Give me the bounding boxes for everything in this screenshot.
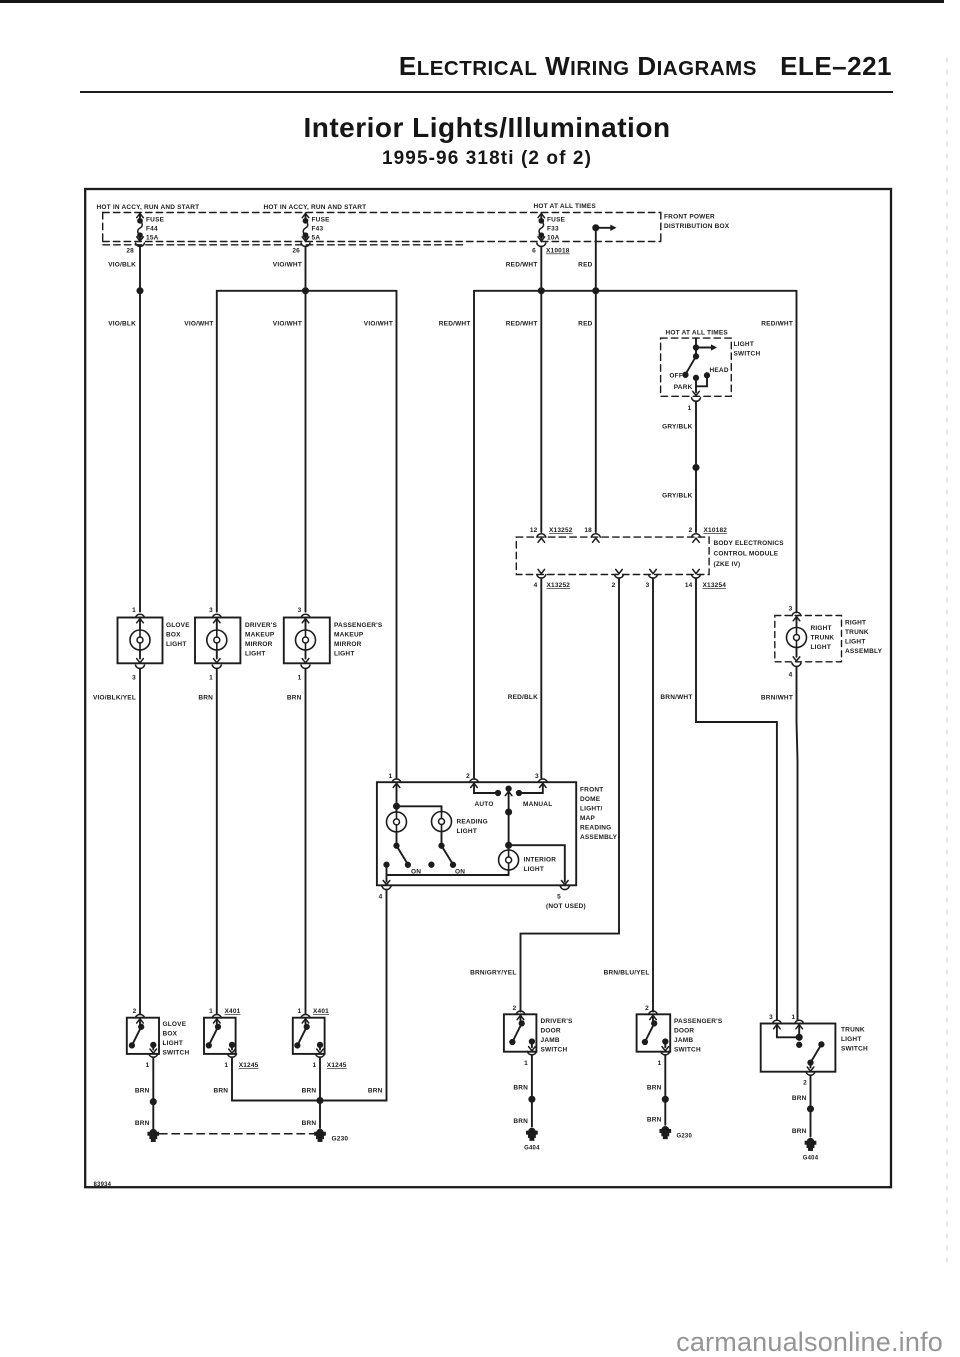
svg-text:JAMB: JAMB	[541, 1037, 560, 1044]
svg-text:BRN: BRN	[513, 1085, 528, 1092]
svg-text:LIGHT: LIGHT	[457, 828, 478, 835]
svg-text:5A: 5A	[312, 235, 321, 242]
svg-text:GLOVE: GLOVE	[166, 622, 190, 629]
svg-text:2: 2	[466, 773, 470, 780]
label: RIGHT TRUNK LIGHT (inside)	[811, 625, 835, 651]
bulb: interior light	[508, 845, 510, 850]
svg-text:LIGHT: LIGHT	[841, 1036, 862, 1043]
svg-text:BRN: BRN	[792, 1128, 807, 1135]
svg-text:(NOT USED): (NOT USED)	[546, 903, 586, 910]
wire W7: RED from distribution box tap down to ZKE pin 18	[595, 228, 597, 532]
svg-text:10A: 10A	[547, 235, 560, 242]
svg-text:HOT AT ALL TIMES: HOT AT ALL TIMES	[534, 203, 597, 210]
driver's makeup mirror switch (box)	[204, 1018, 236, 1054]
label: FRONT DOME LIGHT/ MAP READING ASSEMBLY	[580, 787, 618, 842]
svg-text:HOT IN ACCY, RUN AND START: HOT IN ACCY, RUN AND START	[97, 204, 200, 211]
label BRN/WHT (W10b)	[660, 694, 692, 701]
svg-text:28: 28	[126, 248, 134, 255]
svg-text:LIGHT: LIGHT	[845, 639, 866, 646]
svg-text:1: 1	[298, 1008, 302, 1015]
svg-text:G230: G230	[677, 1134, 693, 1140]
svg-text:RED/WHT: RED/WHT	[506, 262, 538, 269]
wire: BRN passenger jamb switch to ground G230	[664, 1055, 666, 1125]
ZKE pin 14 X13254 (bottom)	[693, 569, 700, 573]
svg-text:2: 2	[612, 582, 616, 589]
wire: BRN passenger mirror switch to ground G230	[319, 1057, 321, 1128]
svg-text:1: 1	[224, 1062, 228, 1069]
svg-text:2: 2	[513, 1005, 517, 1012]
svg-text:AUTO: AUTO	[475, 801, 494, 808]
svg-text:FRONT POWER: FRONT POWER	[664, 214, 715, 221]
svg-text:GRY/BLK: GRY/BLK	[662, 424, 693, 431]
top scan bar	[0, 0, 944, 3]
fuse F43 5A	[302, 214, 330, 242]
passenger's makeup mirror light (box)	[284, 618, 330, 664]
svg-text:BRN: BRN	[135, 1088, 150, 1095]
svg-text:X401: X401	[313, 1008, 329, 1015]
svg-text:SWITCH: SWITCH	[541, 1047, 568, 1054]
label VIO/WHT (lower, W3)	[273, 321, 302, 328]
passenger mirror switch pin 1 X401 (top)	[301, 1014, 310, 1017]
page header: ELECTRICAL WIRING DIAGRAMS ELE-221	[0, 51, 892, 82]
svg-text:(ZKE IV): (ZKE IV)	[714, 561, 741, 568]
passenger mirror switch internals	[305, 1018, 307, 1027]
wire: BRN glove switch to ground	[152, 1057, 154, 1128]
trunk switch internals	[777, 1024, 799, 1037]
svg-text:LIGHT/: LIGHT/	[580, 806, 603, 813]
svg-text:1: 1	[688, 405, 692, 412]
svg-text:RED: RED	[578, 262, 592, 269]
svg-text:15A: 15A	[146, 235, 159, 242]
label: GLOVE BOX LIGHT SWITCH	[163, 1021, 190, 1057]
passenger mirror light pin 1 (bottom)	[301, 665, 310, 668]
label: PASSENGER'S MAKEUP MIRROR LIGHT	[334, 622, 383, 658]
svg-text:VIO/BLK: VIO/BLK	[108, 262, 136, 269]
passenger's door jamb switch (box)	[637, 1014, 671, 1051]
wire W6b: RED/BLK ZKE pin 4 down to dome assembly pin 3	[540, 578, 542, 777]
junction dot on W1	[137, 288, 142, 293]
driver mirror light pin 1 (bottom)	[212, 665, 221, 668]
svg-text:VIO/WHT: VIO/WHT	[184, 321, 213, 328]
svg-text:RED/BLK: RED/BLK	[508, 694, 538, 701]
svg-text:F33: F33	[547, 226, 559, 233]
svg-text:F43: F43	[312, 226, 324, 233]
svg-text:3: 3	[535, 773, 539, 780]
svg-text:GLOVE: GLOVE	[163, 1021, 187, 1028]
diagram number 83934	[94, 1182, 112, 1188]
driver jamb switch pin 1 (bottom)	[527, 1052, 536, 1055]
svg-text:1: 1	[209, 675, 213, 682]
svg-text:BRN: BRN	[302, 1120, 317, 1127]
svg-text:BRN: BRN	[513, 1118, 528, 1125]
wire W10b: BRN/WHT ZKE pin 14 down, jog right, to trunk light switch pin 3	[696, 578, 777, 1020]
label: DRIVER'S MAKEUP MIRROR LIGHT	[245, 622, 278, 658]
svg-text:MAKEUP: MAKEUP	[334, 632, 364, 639]
svg-text:4: 4	[379, 894, 383, 901]
svg-text:X401: X401	[225, 1008, 241, 1015]
connector pin 1 below light switch	[692, 398, 701, 401]
wire W2: VIO/WHT branch down to driver makeup mirror light	[216, 291, 218, 612]
svg-text:RED: RED	[578, 321, 592, 328]
svg-text:X10182: X10182	[704, 527, 728, 534]
passenger mirror switch pin 1 X1245 (bottom)	[316, 1054, 325, 1057]
svg-text:BODY ELECTRONICS: BODY ELECTRONICS	[714, 540, 785, 547]
svg-text:BRN/GRY/YEL: BRN/GRY/YEL	[470, 970, 516, 977]
wire: BRN driver mirror switch to ground junction	[232, 1057, 320, 1100]
glove box light pin 1 (top)	[136, 614, 145, 617]
svg-text:DOOR: DOOR	[674, 1028, 694, 1035]
dome internals: pin1 feed to reading light bulbs	[396, 783, 398, 812]
driver mirror light pin 3 (top)	[212, 614, 221, 617]
junction dot on W6 at bus	[539, 288, 544, 293]
svg-text:BOX: BOX	[166, 632, 181, 639]
label: INTERIOR LIGHT	[524, 857, 557, 874]
svg-text:VIO/BLK: VIO/BLK	[108, 321, 136, 328]
svg-text:PASSENGER'S: PASSENGER'S	[334, 622, 383, 629]
svg-text:READING: READING	[580, 825, 611, 832]
svg-text:VIO/BLK/YEL: VIO/BLK/YEL	[93, 695, 136, 702]
light switch (dashed box)	[661, 338, 732, 396]
passenger jamb switch pin 1 (bottom)	[661, 1052, 670, 1055]
wire: VIO/WHT bus	[217, 290, 397, 292]
svg-text:MAP: MAP	[580, 815, 596, 822]
ZKE pin 3 (bottom)	[650, 569, 657, 573]
glove switch pin 2 (top)	[136, 1014, 145, 1017]
svg-text:RIGHT: RIGHT	[845, 620, 866, 627]
svg-text:1: 1	[209, 1008, 213, 1015]
dome internals: selector wire to interior light	[506, 786, 510, 790]
label VIO/WHT (W2)	[184, 321, 213, 328]
ZKE pin 18 (top)	[591, 534, 600, 537]
wire: BRN driver jamb switch to ground G404	[531, 1055, 533, 1126]
svg-text:2: 2	[133, 1008, 137, 1015]
connector pin 28 below fuse F44	[136, 243, 145, 246]
svg-text:DRIVER'S: DRIVER'S	[245, 622, 278, 629]
svg-text:RIGHT: RIGHT	[811, 625, 832, 632]
svg-text:BRN: BRN	[302, 1088, 317, 1095]
svg-text:RED/WHT: RED/WHT	[761, 321, 793, 328]
label BRN (driver mirror)	[198, 695, 213, 702]
label GRY/BLK (lower)	[662, 493, 693, 500]
label RED (upper)	[578, 262, 592, 269]
svg-text:BRN: BRN	[368, 1088, 383, 1095]
driver's makeup mirror light (box)	[195, 618, 240, 664]
svg-text:BRN: BRN	[287, 695, 302, 702]
svg-text:BRN: BRN	[135, 1120, 150, 1127]
dome internals: branch to pin 5	[509, 845, 565, 882]
svg-text:FUSE: FUSE	[146, 217, 165, 224]
svg-text:1: 1	[132, 607, 136, 614]
label: DRIVER'S DOOR JAMB SWITCH	[541, 1018, 574, 1054]
junction dot on W10	[693, 465, 698, 470]
svg-text:HEAD: HEAD	[710, 367, 729, 374]
label BRN/GRY/YEL	[470, 970, 516, 977]
svg-text:3: 3	[646, 582, 650, 589]
svg-text:HOT IN ACCY, RUN AND START: HOT IN ACCY, RUN AND START	[264, 204, 367, 211]
svg-text:G404: G404	[524, 1146, 540, 1152]
bulb: reading light 1	[387, 812, 407, 832]
wire: BRN trunk switch to ground G404	[810, 1075, 812, 1136]
svg-text:G230: G230	[332, 1136, 349, 1143]
label RED (lower)	[578, 321, 592, 328]
svg-text:ASSEMBLY: ASSEMBLY	[845, 648, 883, 655]
svg-text:VIO/WHT: VIO/WHT	[273, 262, 302, 269]
bulb: reading light 2	[432, 812, 452, 832]
svg-text:SWITCH: SWITCH	[841, 1046, 868, 1053]
label: TRUNK LIGHT SWITCH	[841, 1027, 868, 1053]
dome assembly pin 3 (top)	[538, 779, 547, 782]
ZKE pin 4 X13252 (bottom)	[538, 569, 545, 573]
front dome light / map reading assembly (box)	[377, 782, 576, 885]
svg-text:CONTROL MODULE: CONTROL MODULE	[714, 551, 779, 558]
label RED/WHT (W11)	[761, 321, 793, 328]
wire W3b: BRN passenger mirror light to passenger mirror switch	[305, 669, 307, 1014]
driver jamb switch internals	[520, 1015, 522, 1024]
wire W5: RED/WHT branch down to dome assembly pin 2	[473, 291, 475, 778]
driver mirror switch pin 1 X401 (top)	[212, 1014, 221, 1017]
svg-text:PASSENGER'S: PASSENGER'S	[674, 1018, 723, 1025]
svg-text:83934: 83934	[94, 1182, 112, 1188]
svg-text:3: 3	[209, 607, 213, 614]
net label: HOT IN ACCY, RUN AND START (middle)	[264, 204, 367, 211]
dome internals: MANUAL contact from pin 3	[522, 783, 543, 793]
dome internals: ground rail to pin 4	[387, 865, 509, 875]
bulb: passenger's makeup mirror light	[305, 618, 307, 630]
svg-text:14: 14	[685, 582, 693, 589]
svg-text:F44: F44	[146, 226, 158, 233]
svg-text:SWITCH: SWITCH	[674, 1047, 701, 1054]
svg-text:BRN: BRN	[647, 1117, 662, 1124]
node: RED feed tap with arrow inside distribution box	[593, 225, 616, 231]
bulb: glove box light	[139, 618, 141, 630]
svg-text:INTERIOR: INTERIOR	[524, 857, 557, 864]
wire: BRN dome assembly pin 4 to ground junction	[320, 890, 387, 1101]
label: LIGHT SWITCH	[734, 341, 761, 358]
label: READING LIGHT	[457, 819, 488, 836]
svg-text:LIGHT: LIGHT	[734, 341, 755, 348]
passenger's makeup mirror switch (box)	[293, 1018, 325, 1054]
junction dot on W3 at bus	[303, 288, 308, 293]
net label: HOT AT ALL TIMES	[534, 203, 597, 210]
svg-text:MIRROR: MIRROR	[334, 641, 362, 648]
svg-text:SWITCH: SWITCH	[163, 1050, 190, 1057]
svg-text:LIGHT: LIGHT	[811, 644, 832, 651]
wire W11: RED/WHT branch down to right trunk light assembly	[796, 291, 798, 613]
glove switch internals	[139, 1018, 141, 1027]
svg-text:FUSE: FUSE	[547, 217, 566, 224]
driver jamb switch pin 2 (top)	[516, 1011, 525, 1014]
svg-text:MAKEUP: MAKEUP	[245, 632, 275, 639]
svg-text:PARK: PARK	[674, 384, 693, 391]
light switch internals	[669, 338, 728, 395]
dome assembly pin 4 (bottom)	[382, 886, 391, 889]
svg-text:MIRROR: MIRROR	[245, 641, 273, 648]
dome assembly pin 5 (bottom, not used)	[560, 886, 569, 889]
svg-text:BRN/WHT: BRN/WHT	[660, 694, 692, 701]
svg-text:RED/WHT: RED/WHT	[439, 321, 471, 328]
wire W11b: BRN/WHT trunk assembly pin 4 to trunk light switch pin 1	[797, 667, 798, 1020]
ground G404 (trunk switch)	[806, 1139, 816, 1150]
subtitle	[14, 148, 960, 170]
label VIO/BLK (lower)	[108, 321, 136, 328]
ZKE pin 2 (bottom)	[616, 569, 623, 573]
connector 6 X10018 below fuse F33	[537, 243, 546, 246]
svg-text:HOT AT ALL TIMES: HOT AT ALL TIMES	[666, 330, 729, 337]
driver mirror switch pin 1 X1245 (bottom)	[228, 1054, 237, 1057]
passenger jamb switch internals	[652, 1015, 654, 1024]
dome internals: reading light switch 1 (ON)	[396, 832, 398, 846]
svg-text:X13252: X13252	[547, 582, 571, 589]
svg-text:12: 12	[530, 527, 538, 534]
trunk assembly pin 4 (bottom)	[792, 663, 801, 666]
net label: HOT AT ALL TIMES (light switch)	[666, 330, 729, 337]
svg-text:1: 1	[146, 1062, 150, 1069]
label BRN/BLU/YEL	[604, 970, 650, 977]
fuse F33 10A	[538, 214, 566, 242]
svg-text:TRUNK: TRUNK	[845, 629, 869, 636]
svg-text:DOME: DOME	[580, 796, 601, 803]
watermark	[676, 1327, 943, 1357]
svg-text:GRY/BLK: GRY/BLK	[662, 493, 693, 500]
dome assembly pin 1 (top)	[392, 779, 401, 782]
ground G404 (driver jamb)	[527, 1129, 537, 1140]
glove switch pin 1 (bottom)	[149, 1054, 158, 1057]
dashed ground link to G230	[160, 1133, 315, 1135]
svg-text:3: 3	[769, 1014, 773, 1021]
wire W1: VIO/BLK from fuse F44 down to glove box light	[139, 247, 141, 612]
svg-text:2: 2	[645, 1005, 649, 1012]
net label: HOT IN ACCY, RUN AND START (left)	[97, 204, 200, 211]
label BRN/WHT (W11b)	[761, 695, 793, 702]
trunk switch pin 2 (bottom)	[806, 1072, 815, 1075]
label: BODY ELECTRONICS CONTROL MODULE (ZKE IV)	[714, 540, 785, 568]
svg-text:DRIVER'S: DRIVER'S	[541, 1018, 574, 1025]
svg-text:X10018: X10018	[546, 248, 570, 255]
svg-text:BOX: BOX	[163, 1031, 178, 1038]
driver's door jamb switch (box)	[504, 1014, 537, 1051]
svg-text:18: 18	[584, 527, 592, 534]
wire W2b: BRN driver mirror light to driver mirror switch	[216, 669, 218, 1014]
wire W4: VIO/WHT branch down to dome assembly pin 1	[396, 291, 398, 778]
svg-text:2: 2	[689, 527, 693, 534]
junction dot on W7 at bus	[593, 288, 598, 293]
trunk light switch (box)	[761, 1024, 836, 1072]
svg-text:3: 3	[298, 607, 302, 614]
ZKE pin 2 X10182 (top)	[692, 534, 701, 537]
svg-text:5: 5	[557, 894, 561, 901]
svg-text:X1245: X1245	[327, 1062, 347, 1069]
dome internals: reading light switch 2 (ON)	[441, 832, 443, 846]
svg-text:BRN/BLU/YEL: BRN/BLU/YEL	[604, 970, 650, 977]
svg-text:VIO/WHT: VIO/WHT	[273, 321, 302, 328]
body electronics control module ZKE IV (dashed box)	[516, 537, 709, 574]
svg-text:1: 1	[389, 773, 393, 780]
connector pin 26 below fuse F43	[301, 243, 310, 246]
label RED/WHT (W6 lower)	[506, 321, 538, 328]
svg-text:3: 3	[132, 675, 136, 682]
svg-text:X13254: X13254	[703, 582, 727, 589]
header rule	[80, 91, 893, 93]
ground G230 (passenger jamb)	[660, 1127, 670, 1138]
label RED/WHT (W6 upper)	[506, 262, 538, 269]
bulb: right trunk light	[796, 616, 798, 628]
label: GLOVE BOX LIGHT	[166, 622, 190, 648]
label: PASSENGER'S DOOR JAMB SWITCH	[674, 1018, 723, 1054]
label VIO/BLK (upper)	[108, 262, 136, 269]
label VIO/BLK/YEL	[93, 695, 136, 702]
svg-text:BRN: BRN	[792, 1095, 807, 1102]
glove box light pin 3 (bottom)	[136, 665, 145, 668]
label: RIGHT TRUNK LIGHT ASSEMBLY	[845, 620, 883, 656]
front power distribution box (dashed)	[103, 213, 661, 245]
svg-text:4: 4	[534, 582, 538, 589]
svg-text:BRN: BRN	[198, 695, 213, 702]
fuse F44 15A	[137, 214, 165, 242]
wire W6: RED/WHT from fuse F33 down to ZKE pin 12	[540, 247, 542, 532]
label VIO/WHT (W4)	[364, 321, 393, 328]
dome internals: AUTO contact from pin 2	[474, 783, 496, 793]
svg-text:3: 3	[789, 606, 793, 613]
svg-text:FUSE: FUSE	[312, 217, 331, 224]
label RED/BLK	[508, 694, 538, 701]
svg-text:1: 1	[524, 1060, 528, 1067]
svg-text:DOOR: DOOR	[541, 1028, 561, 1035]
passenger mirror light pin 3 (top)	[301, 614, 310, 617]
ground (glove box switch, to G230)	[148, 1130, 158, 1141]
svg-text:ASSEMBLY: ASSEMBLY	[580, 834, 618, 841]
svg-text:DISTRIBUTION BOX: DISTRIBUTION BOX	[664, 223, 730, 230]
trunk switch pin 1 (top)	[795, 1020, 804, 1023]
svg-text:VIO/WHT: VIO/WHT	[364, 321, 393, 328]
wire W1b: VIO/BLK/YEL glove box light to glove box light switch	[139, 669, 141, 1014]
trunk switch pin 3 (top)	[772, 1020, 781, 1023]
passenger jamb switch pin 2 (top)	[649, 1011, 658, 1014]
label: FRONT POWER DISTRIBUTION BOX	[664, 214, 730, 231]
svg-text:LIGHT: LIGHT	[166, 641, 187, 648]
ZKE pin 12 X13252 (top)	[537, 534, 546, 537]
outer diagram border	[85, 189, 891, 1187]
svg-text:BRN: BRN	[214, 1088, 229, 1095]
dome assembly pin 2 (top)	[470, 779, 479, 782]
ground G230 (mirror lights)	[315, 1130, 325, 1141]
right trunk light assembly (dashed box)	[775, 616, 842, 662]
driver mirror switch internals	[216, 1018, 218, 1027]
svg-text:LIGHT: LIGHT	[524, 866, 545, 873]
scan artifact: right page edge	[946, 58, 948, 1268]
svg-text:RED/WHT: RED/WHT	[506, 321, 538, 328]
svg-text:BRN/WHT: BRN/WHT	[761, 695, 793, 702]
svg-text:1: 1	[298, 675, 302, 682]
svg-text:1: 1	[658, 1060, 662, 1067]
svg-text:BRN: BRN	[647, 1085, 662, 1092]
trunk assembly pin 3 (top)	[792, 612, 801, 615]
svg-text:2: 2	[803, 1080, 807, 1087]
svg-text:26: 26	[292, 248, 300, 255]
svg-text:SWITCH: SWITCH	[734, 351, 761, 358]
svg-text:1: 1	[312, 1062, 316, 1069]
svg-text:LIGHT: LIGHT	[163, 1040, 184, 1047]
wire W9: ZKE pin 3 down to passenger door jamb switch	[652, 578, 654, 1011]
title	[14, 112, 960, 144]
bulb: driver's makeup mirror light	[216, 618, 218, 630]
label VIO/WHT (upper)	[273, 262, 302, 269]
wire W8: ZKE pin 2 down, jog left, to driver door jamb switch	[521, 578, 620, 1011]
glove box light switch (box)	[127, 1018, 159, 1054]
dome internals: fixed contacts	[384, 863, 388, 867]
svg-text:TRUNK: TRUNK	[811, 635, 835, 642]
svg-text:LIGHT: LIGHT	[245, 651, 266, 658]
wire W10: GRY/BLK light switch to ZKE pin 2	[695, 401, 697, 532]
